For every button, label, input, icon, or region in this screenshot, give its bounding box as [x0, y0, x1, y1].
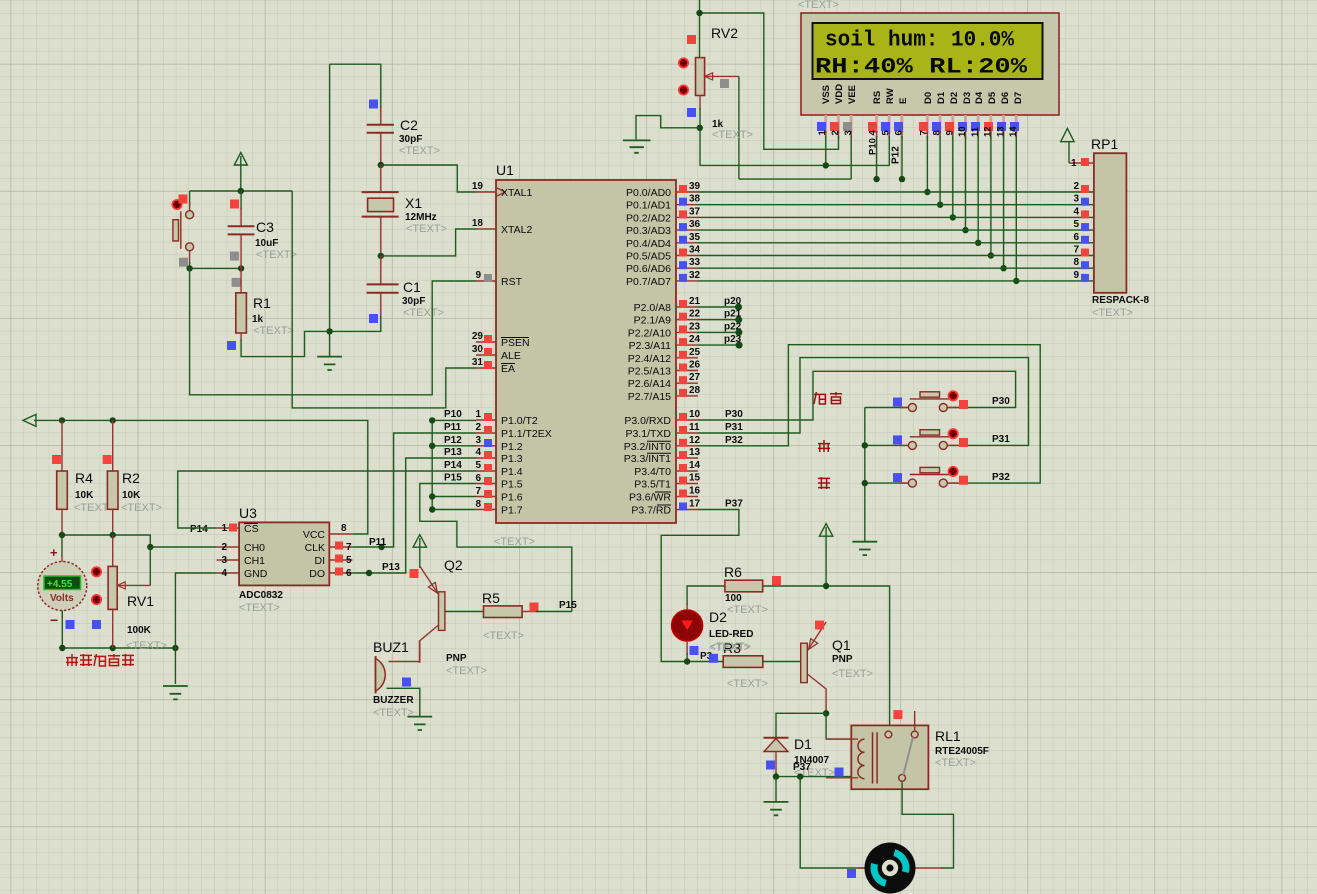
junction VCC/VDD: [696, 10, 702, 16]
RP1 pin squares 2-9: [1081, 185, 1089, 282]
svg-text:p22: p22: [724, 321, 742, 332]
RL1 switch blade: [903, 737, 913, 775]
potentiometer RV1 body: [112, 535, 114, 566]
svg-text:p20: p20: [724, 296, 742, 307]
wire VCC top to RV2: [699, 0, 701, 58]
U1 right pin names: [624, 187, 672, 517]
U1 right pin numbers: [689, 181, 701, 510]
wire net P32: [698, 345, 1040, 483]
svg-text:soil hum: 10.0%: soil hum: 10.0%: [825, 27, 1014, 53]
wire VSS down: [825, 136, 827, 165]
junction X1/C1/XTAL2: [378, 253, 384, 259]
svg-text:Volts: Volts: [50, 593, 74, 604]
svg-text:6: 6: [475, 473, 481, 484]
svg-text:14: 14: [1008, 126, 1019, 137]
D2 blue square: [690, 646, 699, 655]
svg-text:P12: P12: [891, 146, 902, 164]
crystal X1: [362, 192, 399, 217]
capacitor C2 blue square: [369, 100, 378, 109]
wires LCD D0-D7 down to P0 rows: [927, 136, 1016, 281]
svg-text:RESPACK-8: RESPACK-8: [1092, 295, 1149, 306]
svg-text:31: 31: [472, 357, 484, 368]
svg-text:5: 5: [475, 460, 481, 471]
svg-text:5: 5: [1073, 219, 1079, 230]
svg-text:3: 3: [843, 130, 854, 135]
wire RS down to net P10: [876, 136, 878, 179]
reset button bottom pin: [189, 251, 191, 264]
svg-text:<TEXT>: <TEXT>: [121, 502, 162, 514]
voltmeter display: [44, 576, 81, 590]
svg-text:P32: P32: [992, 472, 1010, 483]
U1 left pin numbers: [472, 181, 484, 510]
svg-text:<TEXT>: <TEXT>: [1092, 307, 1133, 319]
U3 pin names: [244, 523, 268, 580]
reset button red square: [179, 195, 188, 204]
svg-text:P3.6/WR: P3.6/WR: [629, 492, 671, 504]
wire VCC rail left: [34, 420, 368, 534]
svg-text:P2.0/A8: P2.0/A8: [634, 302, 672, 314]
power arrow VCC top-left: [234, 153, 247, 192]
ADC U3 body: [239, 522, 329, 585]
R5 red square: [530, 603, 539, 612]
ground symbol below D1: [764, 802, 789, 815]
power arrow left (VCC rail): [23, 414, 36, 426]
U3 pin squares: [229, 524, 237, 532]
RV2 wiper wire down: [738, 76, 740, 179]
svg-text:6: 6: [1073, 232, 1079, 243]
wire net P37 U1 to D2 cathode: [661, 510, 739, 662]
wire center vertical from C2 to ground: [329, 64, 331, 331]
transistor Q1 PNP: [801, 622, 826, 714]
svg-text:11: 11: [689, 422, 700, 433]
svg-text:13: 13: [689, 447, 701, 458]
wire P1 common vertical: [432, 420, 476, 509]
wire Q2 collector to buzzer: [389, 641, 420, 662]
RP1 pin1 stub: [1069, 162, 1094, 164]
svg-text:C1: C1: [403, 279, 421, 295]
svg-text:7: 7: [1073, 245, 1079, 256]
RL1 switch pins: [885, 731, 892, 738]
svg-text:P14: P14: [190, 524, 208, 535]
svg-text:P0.6/AD6: P0.6/AD6: [626, 263, 671, 275]
motor pins: [858, 867, 942, 869]
RV2 terminal indicator bottom: [679, 85, 688, 94]
svg-text:RTE24005F: RTE24005F: [935, 746, 989, 757]
svg-text:D6: D6: [1000, 92, 1011, 104]
svg-text:12: 12: [689, 435, 701, 446]
svg-text:<TEXT>: <TEXT>: [935, 757, 976, 769]
junction p23: [736, 342, 743, 349]
ground symbol keys: [852, 542, 877, 555]
C3 red square: [230, 200, 239, 209]
svg-text:5: 5: [346, 555, 352, 566]
junction button bottom: [186, 265, 192, 271]
svg-text:−: −: [50, 612, 58, 628]
svg-text:P3.0/RXD: P3.0/RXD: [624, 415, 671, 427]
svg-text:ALE: ALE: [501, 350, 521, 362]
RV1 terminal indicator bottom: [92, 595, 101, 604]
junction C2/X1/XTAL1: [378, 162, 384, 168]
svg-text:1: 1: [221, 523, 227, 534]
svg-text:DI: DI: [315, 555, 326, 567]
resistor R2: [112, 420, 114, 471]
svg-text:P1.7: P1.7: [501, 505, 523, 517]
RL1 NO stub: [914, 711, 916, 731]
svg-text:CS: CS: [244, 523, 259, 535]
R4 red square: [52, 455, 61, 464]
svg-text:VEE: VEE: [847, 85, 858, 104]
label MINUS chinese: [818, 477, 830, 489]
wire C2 top rail: [330, 64, 381, 112]
LCD pin numbers 1-14: [817, 126, 1019, 155]
svg-text:GND: GND: [244, 568, 268, 580]
C1 blue square: [369, 314, 378, 323]
svg-text:2: 2: [475, 422, 481, 433]
svg-text:p23: p23: [724, 334, 742, 345]
wire Q1 collector junction: [826, 711, 852, 739]
reset button top pin: [189, 202, 191, 211]
svg-text:22: 22: [689, 309, 701, 320]
svg-text:10: 10: [689, 409, 701, 420]
ground symbol below X1: [329, 331, 331, 356]
resistor R5: [484, 606, 523, 618]
wire keys common to ground: [864, 408, 866, 542]
resistor R4: [61, 420, 63, 471]
key PLUS button: [865, 429, 968, 449]
svg-text:DO: DO: [309, 568, 325, 580]
R6 red square: [772, 576, 781, 585]
wire R6 left to LED: [687, 586, 725, 605]
D1 blue square: [766, 761, 775, 770]
label PLUS chinese: [818, 440, 830, 452]
wire C1 bottom to ground: [330, 316, 381, 331]
svg-text:P1.3: P1.3: [501, 453, 523, 465]
junction C3 bottom: [238, 265, 244, 271]
wire voltmeter bottom: [62, 611, 175, 649]
svg-text:PNP: PNP: [446, 653, 467, 664]
potentiometer RV2 body: [696, 58, 705, 96]
svg-text:P0.2/AD2: P0.2/AD2: [626, 212, 671, 224]
wire net P14 CS to U1 P1.4: [178, 471, 476, 528]
svg-text:<TEXT>: <TEXT>: [494, 536, 535, 548]
svg-text:P1.4: P1.4: [501, 466, 523, 478]
label soil sensor chinese: [66, 654, 134, 666]
svg-text:P2.1/A9: P2.1/A9: [634, 315, 672, 327]
wire net P30: [698, 371, 1016, 420]
svg-text:1k: 1k: [252, 314, 264, 325]
wire VCC rail top-left: [190, 190, 293, 192]
svg-text:P11: P11: [444, 422, 462, 433]
resistor R6: [725, 580, 763, 592]
svg-text:P1.1/T2EX: P1.1/T2EX: [501, 428, 552, 440]
wire wiper-VEE horizontal: [739, 178, 851, 180]
svg-text:30: 30: [472, 344, 484, 355]
svg-text:P3.2/INT0: P3.2/INT0: [624, 441, 671, 453]
svg-text:PNP: PNP: [832, 654, 853, 665]
svg-text:19: 19: [472, 181, 484, 192]
svg-text:<TEXT>: <TEXT>: [798, 0, 839, 11]
svg-text:30pF: 30pF: [402, 296, 425, 307]
svg-text:P1.2: P1.2: [501, 441, 523, 453]
junction Q1 emitter/VCC: [823, 583, 829, 589]
svg-text:<TEXT>: <TEXT>: [727, 604, 768, 616]
junction gnd column: [172, 645, 178, 651]
junction RV1 bottom: [110, 645, 116, 651]
ground symbol below buzzer: [407, 717, 432, 730]
svg-text:<TEXT>: <TEXT>: [239, 602, 280, 614]
svg-text:R1: R1: [253, 295, 271, 311]
RV2 wiper arrow: [707, 75, 739, 77]
svg-text:9: 9: [1073, 270, 1079, 281]
RV1 terminal indicator top: [92, 567, 101, 576]
RV2 blue square: [687, 108, 696, 117]
junction P1.6: [429, 493, 435, 499]
junction P11: [378, 544, 384, 550]
svg-text:10: 10: [957, 126, 968, 137]
svg-text:37: 37: [689, 206, 701, 217]
svg-text:RH:40% RL:20%: RH:40% RL:20%: [815, 54, 1028, 80]
svg-text:26: 26: [689, 360, 701, 371]
junction RV2/gnd tee: [697, 125, 703, 131]
svg-text:10K: 10K: [75, 490, 94, 501]
svg-text:VSS: VSS: [821, 85, 832, 104]
wire motor left branch: [800, 777, 864, 868]
LCD pin squares: [817, 122, 1019, 131]
svg-text:<TEXT>: <TEXT>: [483, 630, 524, 642]
svg-text:30pF: 30pF: [399, 134, 422, 145]
svg-text:P31: P31: [992, 434, 1010, 445]
MCU U1 body: [496, 180, 676, 523]
svg-text:12: 12: [983, 126, 994, 137]
svg-text:25: 25: [689, 347, 701, 358]
svg-text:P30: P30: [992, 396, 1010, 407]
svg-text:P3.4/T0: P3.4/T0: [634, 466, 671, 478]
U3 pin numbers: [221, 523, 227, 579]
U1 left pin stubs: [476, 192, 496, 510]
junction P13: [366, 570, 372, 576]
svg-text:P31: P31: [725, 422, 743, 433]
U1 left pin squares: [484, 274, 492, 511]
junction P1.0: [429, 417, 435, 423]
wire net P13 DO to U1: [352, 458, 476, 573]
svg-text:10K: 10K: [122, 490, 141, 501]
svg-text:P1.0/T2: P1.0/T2: [501, 415, 538, 427]
svg-text:RL1: RL1: [935, 728, 961, 744]
svg-text:39: 39: [689, 181, 701, 192]
svg-text:6: 6: [346, 568, 352, 579]
LCD pin stubs: [826, 115, 1017, 133]
key SET button: [865, 391, 968, 411]
RV1 wiper wire: [149, 547, 151, 585]
RV2 terminal indicator top: [679, 58, 688, 67]
svg-text:4: 4: [1073, 206, 1079, 217]
wire D1 to ground: [775, 777, 777, 801]
svg-text:P0.4/AD4: P0.4/AD4: [626, 238, 671, 250]
capacitor C2: [380, 106, 382, 124]
wire U3 GND to ground: [175, 573, 216, 684]
svg-text:P0.1/AD1: P0.1/AD1: [626, 200, 671, 212]
wire XTAL2: [381, 229, 476, 256]
resistor R1: [240, 268, 242, 293]
LCD pin names D0-D7: [923, 91, 1024, 104]
svg-text:12MHz: 12MHz: [405, 212, 437, 223]
svg-text:VCC: VCC: [303, 529, 326, 541]
svg-text:P0.5/AD5: P0.5/AD5: [626, 251, 671, 263]
wire R5 to P15 riser: [536, 611, 572, 613]
R1 blue square: [227, 341, 236, 350]
svg-text:P14: P14: [444, 460, 462, 471]
svg-text:8: 8: [932, 130, 943, 135]
svg-text:RW: RW: [885, 88, 896, 104]
svg-text:2: 2: [221, 542, 227, 553]
svg-text:U1: U1: [496, 162, 514, 178]
svg-text:14: 14: [689, 460, 701, 471]
svg-text:EA: EA: [501, 363, 515, 375]
svg-text:RP1: RP1: [1091, 136, 1118, 152]
svg-text:17: 17: [689, 499, 701, 510]
svg-text:D3: D3: [962, 92, 973, 104]
svg-text:16: 16: [689, 486, 701, 497]
wire net P15 U1 to R5: [420, 484, 572, 612]
svg-text:15: 15: [689, 473, 701, 484]
svg-text:8: 8: [475, 499, 481, 510]
svg-text:<TEXT>: <TEXT>: [727, 678, 768, 690]
junction p20: [735, 304, 742, 311]
R2 red square: [103, 455, 112, 464]
svg-text:P2.4/A12: P2.4/A12: [628, 353, 671, 365]
svg-text:R6: R6: [724, 564, 742, 580]
junction D2 cathode: [684, 658, 690, 664]
junction R2 bottom: [110, 532, 116, 538]
svg-text:RS: RS: [872, 91, 883, 104]
U1 overlines INT0 INT1 WR RD: [647, 441, 671, 505]
RV2 gray square: [720, 79, 729, 88]
svg-text:XTAL2: XTAL2: [501, 224, 532, 236]
svg-text:D7: D7: [1013, 92, 1024, 104]
motor M1: [865, 843, 916, 894]
LCD module LCD1 body: [801, 13, 1059, 115]
svg-text:RST: RST: [501, 276, 523, 288]
motor blue square: [847, 869, 856, 878]
key MINUS button: [865, 467, 968, 487]
svg-text:33: 33: [689, 257, 701, 268]
svg-text:1: 1: [475, 409, 481, 420]
ground symbol below U3: [163, 686, 188, 699]
svg-text:34: 34: [689, 245, 701, 256]
svg-text:5: 5: [881, 130, 892, 136]
wire EA net: [292, 191, 476, 408]
svg-text:U3: U3: [239, 505, 257, 521]
svg-text:3: 3: [221, 555, 227, 566]
wire E down to net P12: [901, 136, 903, 179]
svg-text:<TEXT>: <TEXT>: [832, 668, 873, 680]
svg-text:P10: P10: [444, 409, 462, 420]
svg-text:P0.3/AD3: P0.3/AD3: [626, 225, 671, 237]
label SET chinese: [814, 392, 842, 404]
D2 cathode wire: [686, 641, 688, 655]
svg-text:RV1: RV1: [127, 593, 154, 609]
svg-text:1: 1: [817, 130, 828, 136]
svg-text:<TEXT>: <TEXT>: [256, 249, 297, 261]
svg-text:P2.5/A13: P2.5/A13: [628, 366, 671, 378]
svg-text:8: 8: [1073, 257, 1079, 268]
svg-text:P13: P13: [382, 562, 400, 573]
svg-text:<TEXT>: <TEXT>: [399, 145, 440, 157]
LCD screen: [813, 23, 1043, 79]
svg-text:32: 32: [689, 270, 701, 281]
junction p22: [735, 329, 742, 336]
svg-text:PSEN: PSEN: [501, 337, 530, 349]
svg-text:D1: D1: [794, 736, 812, 752]
RV1 wiper arrow: [119, 584, 150, 586]
svg-text:29: 29: [472, 331, 484, 342]
svg-text:P0.0/AD0: P0.0/AD0: [626, 187, 671, 199]
svg-text:CH0: CH0: [244, 542, 265, 554]
transistor Q2 PNP: [420, 566, 445, 663]
wire rail down to button: [189, 191, 191, 206]
svg-text:<TEXT>: <TEXT>: [406, 223, 447, 235]
junction P1.7: [429, 506, 435, 512]
wire R1 bottom to ground net: [241, 331, 330, 356]
wire RW down: [888, 136, 890, 165]
svg-text:E: E: [898, 98, 909, 104]
junctions D0-D7 on P0 rows: [924, 189, 1019, 284]
svg-text:<TEXT>: <TEXT>: [403, 307, 444, 319]
power arrow VCC at RP1: [1068, 141, 1070, 163]
svg-text:P3.1/TXD: P3.1/TXD: [625, 428, 671, 440]
capacitor C3: [240, 191, 242, 210]
svg-text:P37: P37: [725, 499, 743, 510]
svg-text:BUZZER: BUZZER: [373, 695, 414, 706]
svg-text:+4.55: +4.55: [47, 579, 73, 590]
svg-text:D5: D5: [987, 91, 998, 104]
svg-text:10uF: 10uF: [255, 238, 278, 249]
svg-text:P3.7/RD: P3.7/RD: [631, 505, 671, 517]
svg-text:1: 1: [1071, 158, 1077, 169]
relay RL1 body: [851, 725, 928, 789]
U1 right pin squares: [679, 185, 687, 511]
svg-text:23: 23: [689, 321, 701, 332]
svg-text:P1.6: P1.6: [501, 492, 523, 504]
wire RST net: [190, 268, 476, 394]
svg-text:D4: D4: [974, 91, 985, 104]
svg-text:24: 24: [689, 334, 701, 345]
diode D1: [764, 738, 789, 774]
junction P1.2: [429, 443, 435, 449]
svg-text:P37: P37: [793, 762, 811, 773]
LED D2: [686, 603, 688, 612]
wire VDD to VCC rail: [700, 13, 839, 149]
svg-text:X1: X1: [405, 195, 422, 211]
power arrow VCC at Q1: [819, 524, 832, 537]
RP1 pin1 red square: [1081, 158, 1089, 166]
wire net P31: [698, 358, 1029, 446]
wire button bottom to C3: [190, 262, 242, 268]
junction D1 bottom: [773, 773, 779, 779]
svg-text:18: 18: [472, 218, 484, 229]
P37 blue square at relay: [835, 768, 844, 777]
RL1 red square: [893, 710, 902, 719]
wire D1 bottom row: [776, 772, 852, 777]
svg-text:<TEXT>: <TEXT>: [126, 640, 167, 652]
junction wiper/CH0: [147, 544, 153, 550]
C3 gray squares: [230, 252, 239, 261]
svg-text:R5: R5: [482, 590, 500, 606]
svg-text:ADC0832: ADC0832: [239, 590, 283, 601]
svg-text:P2.2/A10: P2.2/A10: [628, 327, 671, 339]
svg-text:3: 3: [475, 435, 481, 446]
U3 right pin stubs: [329, 534, 352, 573]
